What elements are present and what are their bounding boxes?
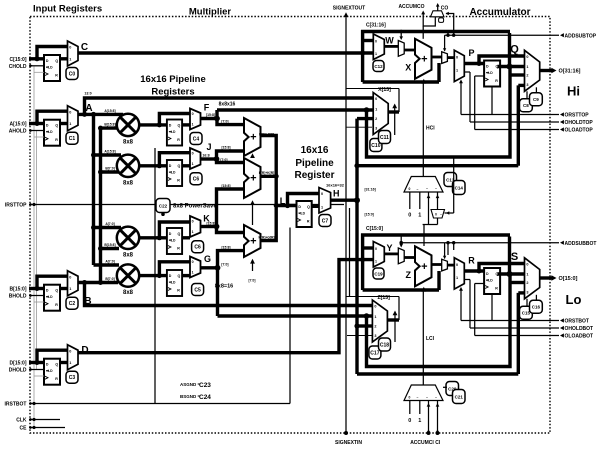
svg-text:OLOADBOT: OLOADBOT: [565, 334, 594, 340]
svg-text:C16: C16: [532, 305, 541, 310]
svg-text:0: 0: [408, 418, 411, 424]
svg-text:8x8: 8x8: [123, 139, 134, 145]
svg-text:[15:8]: [15:8]: [221, 245, 230, 249]
svg-text:Q: Q: [55, 124, 58, 128]
svg-text:D: D: [169, 274, 172, 278]
svg-text:0: 0: [375, 97, 377, 101]
svg-text:D: D: [46, 363, 49, 367]
svg-text:Accumulator: Accumulator: [469, 7, 530, 18]
svg-text:IRSTTOP: IRSTTOP: [5, 203, 27, 209]
svg-text:1: 1: [192, 270, 194, 274]
svg-text:1: 1: [375, 260, 377, 264]
svg-text:Q: Q: [178, 274, 181, 278]
svg-text:R: R: [495, 287, 498, 291]
svg-text:R: R: [55, 74, 58, 78]
svg-text:Q: Q: [178, 232, 181, 236]
svg-text:1: 1: [69, 58, 71, 62]
svg-text:CE: CE: [20, 426, 28, 432]
svg-text:ASGND =: ASGND =: [180, 382, 201, 387]
svg-text:HCI: HCI: [426, 125, 435, 131]
svg-text:1: 1: [526, 272, 528, 276]
svg-text:BSGND =: BSGND =: [180, 394, 201, 399]
svg-text:D: D: [46, 289, 49, 293]
svg-text:0: 0: [69, 349, 71, 353]
svg-text:A[15:0]: A[15:0]: [10, 122, 27, 128]
svg-text:BHOLD: BHOLD: [9, 294, 27, 300]
svg-text:1: 1: [192, 162, 194, 166]
svg-text:D: D: [486, 65, 489, 69]
svg-text:SIGNEXTIN: SIGNEXTIN: [335, 440, 362, 446]
svg-text:R: R: [177, 138, 180, 142]
svg-text:K[R]+G[R]: K[R]+G[R]: [258, 235, 274, 239]
svg-text:W: W: [385, 35, 394, 45]
svg-text:8x8 PowerSave: 8x8 PowerSave: [173, 204, 217, 210]
svg-text:OLOADTOP: OLOADTOP: [565, 128, 594, 134]
svg-text:Z[15]: Z[15]: [377, 295, 390, 301]
svg-text:3: 3: [375, 127, 377, 131]
svg-text:D: D: [46, 59, 49, 63]
svg-text:D: D: [298, 205, 301, 209]
svg-text:<LD: <LD: [46, 130, 53, 134]
svg-text:A[7:0]: A[7:0]: [105, 222, 114, 226]
svg-text:0: 0: [456, 56, 458, 60]
svg-text:R: R: [55, 377, 58, 381]
svg-text:2: 2: [526, 281, 528, 285]
svg-text:[15:8]: [15:8]: [221, 184, 230, 188]
svg-text:0: 0: [321, 192, 323, 196]
svg-text:C22: C22: [159, 203, 168, 208]
svg-text:<LD: <LD: [46, 295, 53, 299]
svg-text:D: D: [46, 124, 49, 128]
svg-text:ADDSUBBOT: ADDSUBBOT: [565, 241, 597, 247]
svg-text:B[7:0]: B[7:0]: [105, 277, 114, 281]
svg-text:[15:0]: [15:0]: [365, 213, 374, 217]
svg-text:B[7:0]: B[7:0]: [105, 167, 114, 171]
svg-text:O[15:0]: O[15:0]: [559, 276, 578, 282]
svg-text:CLK: CLK: [16, 418, 27, 424]
svg-text:G: G: [204, 254, 211, 264]
svg-text:X[15]: X[15]: [378, 87, 391, 93]
svg-text:<LD: <LD: [169, 130, 176, 134]
svg-text:8x8: 8x8: [123, 180, 134, 186]
svg-text:B[15:8]: B[15:8]: [104, 123, 115, 127]
svg-text:ORSTTOP: ORSTTOP: [565, 113, 590, 119]
svg-text:8x8: 8x8: [123, 290, 134, 296]
svg-text:C[15:0]: C[15:0]: [10, 57, 27, 63]
svg-text:OHOLDBOT: OHOLDBOT: [565, 326, 594, 332]
svg-text:0: 0: [69, 46, 71, 50]
svg-text:C5: C5: [194, 287, 201, 293]
svg-text:R: R: [177, 179, 180, 183]
svg-text:C6: C6: [193, 177, 200, 183]
svg-text:–: –: [417, 187, 419, 191]
svg-text:0: 0: [526, 262, 528, 266]
svg-text:1: 1: [418, 418, 421, 424]
svg-text:[7:0]: [7:0]: [221, 263, 228, 267]
svg-text:+: +: [421, 53, 427, 65]
svg-text:Pipeline: Pipeline: [295, 158, 334, 169]
svg-text:LCI: LCI: [426, 336, 435, 342]
svg-text:[15:8]: [15:8]: [221, 146, 230, 150]
svg-text:D: D: [169, 164, 172, 168]
svg-text:1: 1: [69, 361, 71, 365]
svg-text:0: 0: [409, 395, 411, 399]
svg-text:ACCUMCO: ACCUMCO: [398, 4, 424, 10]
svg-text:0: 0: [409, 187, 411, 191]
svg-text:OHOLDTOP: OHOLDTOP: [565, 120, 594, 126]
svg-text:C1: C1: [69, 136, 76, 142]
svg-text:0: 0: [526, 55, 528, 59]
svg-text:C[15:0]: C[15:0]: [366, 226, 383, 232]
svg-text:8x8x16: 8x8x16: [219, 101, 236, 107]
svg-text:<LD: <LD: [486, 71, 493, 75]
svg-text:1: 1: [374, 315, 376, 319]
svg-text:16x16=32: 16x16=32: [326, 182, 345, 187]
svg-text:C23: C23: [199, 382, 211, 389]
svg-text:~: ~: [426, 395, 428, 399]
svg-text:ACCUMCI: ACCUMCI: [410, 440, 434, 446]
svg-text:R: R: [177, 289, 180, 293]
svg-text:0: 0: [192, 151, 194, 155]
svg-text:Registers: Registers: [151, 87, 194, 98]
svg-text:J: J: [206, 142, 211, 152]
svg-text:R: R: [307, 220, 310, 224]
svg-text:C3: C3: [69, 375, 76, 381]
svg-text:<LD: <LD: [486, 279, 493, 283]
svg-text:R: R: [55, 303, 58, 307]
svg-text:1: 1: [192, 230, 194, 234]
svg-text:~: ~: [435, 395, 437, 399]
svg-text:C8: C8: [523, 103, 529, 108]
svg-text:D: D: [486, 272, 489, 276]
svg-text:C17: C17: [370, 350, 379, 356]
svg-text:[7:0]: [7:0]: [220, 158, 227, 162]
svg-text:2: 2: [526, 73, 528, 77]
svg-text:13:0: 13:0: [84, 91, 91, 95]
svg-text:16x16: 16x16: [301, 145, 329, 156]
svg-text:B[15:8]: B[15:8]: [104, 243, 115, 247]
svg-text:CI: CI: [435, 440, 441, 446]
svg-text:C10: C10: [371, 143, 380, 149]
svg-text:0: 0: [192, 260, 194, 264]
svg-text:R: R: [177, 247, 180, 251]
svg-text:+: +: [250, 236, 256, 248]
svg-text:Register: Register: [294, 170, 334, 181]
svg-text:0: 0: [192, 219, 194, 223]
svg-text:0: 0: [408, 213, 411, 219]
svg-text:C24: C24: [199, 394, 211, 401]
svg-text:<LD: <LD: [46, 66, 53, 70]
svg-text:Q: Q: [510, 44, 519, 56]
svg-text:Input Registers: Input Registers: [33, 4, 102, 15]
svg-text:C14: C14: [455, 185, 464, 190]
svg-text:L: L: [280, 196, 286, 206]
svg-text:ADDSUBTOP: ADDSUBTOP: [565, 33, 597, 39]
svg-text:F: F: [204, 103, 210, 113]
svg-text:P: P: [468, 48, 474, 58]
svg-text:+: +: [250, 132, 256, 144]
svg-text:[7:0]: [7:0]: [249, 279, 256, 283]
svg-text:0: 0: [374, 305, 376, 309]
svg-text:1: 1: [456, 276, 458, 280]
svg-text:S: S: [511, 251, 518, 263]
svg-text:2: 2: [374, 325, 376, 329]
svg-text:C9: C9: [533, 97, 539, 102]
svg-text:CO: CO: [441, 6, 449, 12]
svg-text:D: D: [169, 124, 172, 128]
svg-text:[15:8]: [15:8]: [206, 113, 215, 117]
svg-text:0: 0: [192, 112, 194, 116]
svg-text:SIGNEXTOUT: SIGNEXTOUT: [333, 6, 365, 12]
svg-text:X: X: [405, 62, 411, 72]
svg-text:C6: C6: [194, 245, 201, 251]
svg-text:1: 1: [456, 69, 458, 73]
svg-text:1: 1: [526, 65, 528, 69]
svg-text:1: 1: [69, 122, 71, 126]
svg-text:0: 0: [375, 247, 377, 251]
svg-text:O[31:16]: O[31:16]: [559, 69, 581, 75]
svg-text:C12: C12: [374, 64, 383, 69]
svg-text:B[15:0]: B[15:0]: [10, 287, 27, 293]
svg-text:[15:8]: [15:8]: [206, 221, 215, 225]
svg-text:2: 2: [375, 117, 377, 121]
svg-text:Y: Y: [386, 243, 392, 253]
svg-text:A[7:0]: A[7:0]: [105, 259, 114, 263]
svg-text:Lo: Lo: [566, 292, 582, 307]
svg-text:C4: C4: [193, 136, 200, 142]
svg-text:0: 0: [69, 110, 71, 114]
svg-text:C[31:16]: C[31:16]: [366, 23, 386, 29]
svg-text:<LD: <LD: [46, 369, 53, 373]
svg-text:<LD: <LD: [169, 171, 176, 175]
svg-text:C0: C0: [69, 71, 76, 77]
svg-text:C7: C7: [322, 218, 329, 224]
svg-text:AHOLD: AHOLD: [9, 129, 27, 135]
svg-text:D[15:0]: D[15:0]: [10, 361, 27, 367]
svg-text:Z: Z: [405, 270, 411, 280]
svg-text:H: H: [333, 188, 340, 198]
svg-text:C21: C21: [455, 394, 464, 399]
svg-text:C11: C11: [380, 135, 389, 141]
svg-text:C19: C19: [374, 271, 383, 276]
svg-text:[31:16]: [31:16]: [365, 187, 376, 191]
svg-text:1: 1: [375, 52, 377, 56]
svg-text:<LD: <LD: [169, 281, 176, 285]
svg-text:0: 0: [456, 263, 458, 267]
svg-text:16x16 Pipeline: 16x16 Pipeline: [140, 74, 205, 85]
svg-text:R: R: [55, 138, 58, 142]
svg-text:+: +: [421, 261, 427, 273]
svg-text:F[R]+K[R]: F[R]+K[R]: [259, 171, 274, 175]
svg-text:A[15:8]: A[15:8]: [104, 109, 115, 113]
svg-text:Q: Q: [55, 289, 58, 293]
svg-text:1: 1: [375, 107, 377, 111]
svg-text:Hi: Hi: [567, 84, 580, 99]
svg-text:0: 0: [435, 213, 437, 217]
svg-text:A: A: [85, 103, 92, 114]
svg-text:D: D: [169, 232, 172, 236]
svg-text:Q: Q: [178, 164, 181, 168]
svg-text:+: +: [250, 173, 256, 185]
svg-text:3: 3: [526, 290, 528, 294]
svg-text:3: 3: [526, 83, 528, 87]
svg-text:16:8: 16:8: [202, 154, 209, 158]
svg-text:R: R: [468, 256, 475, 266]
svg-text:R: R: [495, 79, 498, 83]
svg-text:DHOLD: DHOLD: [9, 368, 27, 374]
svg-text:1: 1: [192, 122, 194, 126]
svg-text:–: –: [417, 395, 419, 399]
svg-text:<LD: <LD: [299, 212, 306, 216]
svg-text:[7:0]: [7:0]: [221, 119, 228, 123]
svg-text:1: 1: [418, 213, 421, 219]
svg-text:CHOLD: CHOLD: [9, 64, 27, 70]
svg-text:0: 0: [375, 39, 377, 43]
svg-text:Q: Q: [178, 124, 181, 128]
svg-text:C18: C18: [380, 342, 389, 348]
svg-text:1: 1: [321, 205, 323, 209]
svg-text:1: 1: [69, 287, 71, 291]
svg-text:<LD: <LD: [169, 239, 176, 243]
svg-text:A[15:8]: A[15:8]: [104, 149, 115, 153]
svg-text:Q: Q: [55, 59, 58, 63]
svg-text:Q: Q: [55, 363, 58, 367]
svg-text:~: ~: [426, 187, 428, 191]
svg-text:ORSTBOT: ORSTBOT: [565, 319, 589, 325]
svg-text:C2: C2: [69, 301, 76, 307]
svg-text:Multiplier: Multiplier: [189, 7, 232, 18]
svg-text:IRSTBOT: IRSTBOT: [5, 402, 27, 408]
svg-text:–: –: [440, 213, 442, 217]
svg-text:Q: Q: [307, 205, 310, 209]
svg-text:3: 3: [374, 334, 376, 338]
svg-text:~: ~: [435, 187, 437, 191]
svg-text:8x8: 8x8: [123, 252, 134, 258]
svg-text:0: 0: [69, 275, 71, 279]
